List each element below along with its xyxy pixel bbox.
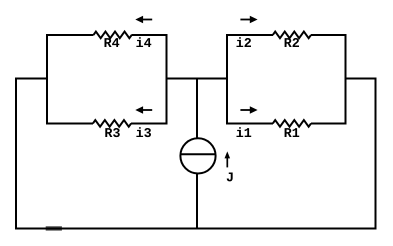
wire left loop left vertical [46, 34, 48, 125]
wire left loop right vertical [165, 34, 167, 125]
wire right loop bottom-right segment [311, 122, 346, 124]
wire outer bottom horizontal [15, 227, 377, 229]
resistor R4 [94, 32, 132, 39]
wire left loop bottom-right segment [131, 122, 166, 124]
resistor R2 [273, 32, 311, 39]
label R2 [285, 38, 299, 47]
wire mid-rail right segment [346, 77, 376, 79]
label i1 [236, 127, 251, 137]
label R4 [105, 38, 120, 47]
wire right loop top-right segment [311, 34, 346, 36]
label i3 [136, 127, 151, 137]
label R1 [285, 128, 300, 137]
wire left loop bottom-left segment [47, 122, 93, 124]
wire outer left vertical [15, 77, 17, 229]
arrow i1 (right) [240, 106, 257, 114]
label i4 [136, 37, 151, 47]
arrow J (up) [225, 151, 231, 167]
current source J chord line [181, 153, 216, 155]
wire right loop bottom-left segment [227, 122, 273, 124]
wire center vertical lower (source to bottom rail) [196, 173, 198, 228]
wire left loop top-right segment [132, 34, 167, 36]
label R3 [105, 128, 120, 137]
arrow i3 (left) [135, 106, 152, 114]
arrow i2 (right) [240, 16, 257, 24]
arrow i4 (left) [135, 16, 152, 24]
wire right loop top-left segment [227, 34, 273, 36]
junction thick segment on bottom rail [46, 226, 62, 230]
wire right loop right vertical [345, 34, 347, 125]
wire mid-rail left segment [16, 77, 47, 79]
wire left loop top-left segment [47, 34, 94, 36]
wire center vertical upper (node to source) [196, 78, 198, 138]
wire mid-rail center segment [166, 77, 227, 79]
current source J circle [180, 138, 215, 173]
resistor R1 [273, 120, 311, 127]
label J [227, 172, 233, 181]
label i2 [236, 37, 251, 47]
resistor R3 [93, 120, 131, 127]
wire outer right vertical [374, 77, 376, 229]
wire right loop left vertical [226, 34, 228, 125]
